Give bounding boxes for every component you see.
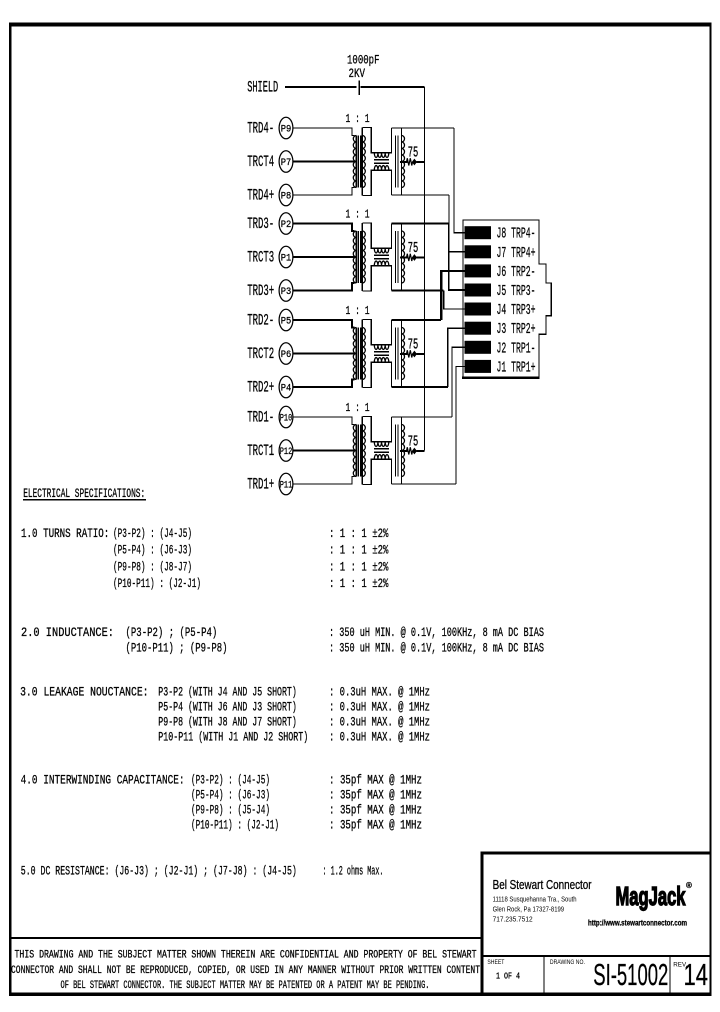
- svg-text:(P3-P2) : (J4-J5): (P3-P2) : (J4-J5): [191, 773, 270, 788]
- svg-text:THIS DRAWING AND THE SUBJECT M: THIS DRAWING AND THE SUBJECT MATTER SHOW…: [15, 950, 477, 962]
- title block outline: [482, 853, 711, 994]
- svg-text:J5 TRP3-: J5 TRP3-: [497, 283, 536, 300]
- transformer T2 core: [357, 328, 359, 380]
- choke L2 core: [374, 351, 389, 353]
- svg-text:SHIELD: SHIELD: [247, 79, 278, 97]
- choke L3 top winding: [374, 248, 389, 253]
- wire shield right segment to bus: [361, 86, 425, 88]
- wire T4 choke bottom link: [362, 170, 391, 195]
- svg-text:TRD1+: TRD1+: [247, 476, 274, 494]
- svg-text:TRD3-: TRD3-: [247, 215, 274, 233]
- svg-text:TRD4+: TRD4+: [247, 187, 274, 205]
- capacitor C1 plate: [358, 81, 360, 96]
- svg-text:1 OF 4: 1 OF 4: [496, 971, 520, 982]
- transformer T2 primary winding: [355, 328, 357, 380]
- svg-text:TRCT4: TRCT4: [247, 153, 274, 171]
- wire TRD4- to primary top: [293, 128, 355, 136]
- pin J6 contact pad: [465, 264, 492, 277]
- svg-text:ELECTRICAL SPECIFICATIONS:: ELECTRICAL SPECIFICATIONS:: [23, 486, 145, 501]
- svg-text:: 350 uH MIN. @ 0.1V, 100KHz,: : 350 uH MIN. @ 0.1V, 100KHz, 8 mA DC BI…: [329, 641, 544, 656]
- transformer T4 secondary winding: [401, 128, 403, 196]
- pin P8 circle: [279, 184, 293, 206]
- wire termination bus vertical: [423, 87, 425, 451]
- choke L3 core: [374, 254, 389, 256]
- svg-text:OF BEL STEWART CONNECTOR. THE: OF BEL STEWART CONNECTOR. THE SUBJECT MA…: [61, 980, 430, 992]
- pin J1 contact pad: [465, 360, 492, 373]
- wire TRD1+ to primary bottom: [293, 477, 355, 485]
- pin J2 contact pad: [465, 341, 492, 354]
- svg-text:P7: P7: [281, 157, 292, 169]
- wire TRP2 top to connector: [392, 319, 442, 321]
- svg-text:P3: P3: [281, 286, 292, 298]
- svg-text:P3-P2 (WITH J4 AND J5 SHORT): P3-P2 (WITH J4 AND J5 SHORT): [158, 685, 296, 700]
- transformer T1 secondary winding: [401, 417, 403, 485]
- wire resistor R2 to shield bus: [417, 353, 425, 355]
- transformer T3 primary winding: [355, 231, 357, 283]
- svg-text:717.235.7512: 717.235.7512: [493, 917, 533, 924]
- svg-text:(P9-P8) : (J8-J7): (P9-P8) : (J8-J7): [113, 559, 192, 574]
- choke L4 top winding: [374, 153, 389, 158]
- resistor R2 symbol: [400, 353, 408, 355]
- svg-text:P5-P4 (WITH J6 AND J3 SHORT): P5-P4 (WITH J6 AND J3 SHORT): [158, 700, 296, 715]
- svg-text:(P10-P11) ; (P9-P8): (P10-P11) ; (P9-P8): [126, 641, 228, 656]
- choke L1 top winding: [374, 442, 389, 447]
- svg-text:1 : 1: 1 : 1: [346, 112, 370, 126]
- pin P10 circle: [279, 406, 293, 428]
- choke L1 core: [374, 448, 389, 450]
- svg-text:Bel Stewart Connector: Bel Stewart Connector: [493, 878, 592, 892]
- svg-text:: 1 : 1 ±2%: : 1 : 1 ±2%: [329, 543, 389, 558]
- svg-text:5.0 DC RESISTANCE: (J6-J3) ; (: 5.0 DC RESISTANCE: (J6-J3) ; (J2-J1) ; (…: [21, 864, 297, 879]
- pin P3 circle: [279, 280, 293, 302]
- wire TRCT1 center tap (thick): [293, 449, 356, 451]
- transformer T1 isolation secondary winding: [361, 417, 363, 485]
- svg-text:CONNECTOR AND SHALL NOT BE REP: CONNECTOR AND SHALL NOT BE REPRODUCED, C…: [11, 965, 480, 977]
- wire TRCT3 center tap (thick): [293, 256, 356, 258]
- wire TRD4+ to primary bottom: [293, 188, 355, 196]
- svg-text:(P5-P4) : (J6-J3): (P5-P4) : (J6-J3): [191, 788, 270, 803]
- wire TRCT2 center tap (thick): [293, 352, 356, 354]
- svg-text:: 350 uH MIN. @ 0.1V, 100KHz,: : 350 uH MIN. @ 0.1V, 100KHz, 8 mA DC BI…: [329, 625, 544, 640]
- pin P7 circle: [279, 151, 293, 173]
- transformer T3 secondary winding: [401, 223, 403, 291]
- wire TRD1- to primary top: [293, 417, 355, 425]
- svg-text:75: 75: [408, 145, 419, 162]
- transformer T4 core: [357, 136, 359, 188]
- svg-text:(P3-P2) : (J4-J5): (P3-P2) : (J4-J5): [113, 526, 192, 541]
- svg-text:P9-P8 (WITH J8 AND J7 SHORT): P9-P8 (WITH J8 AND J7 SHORT): [158, 715, 296, 730]
- wire T3 choke bottom link: [362, 266, 391, 291]
- pin J4 contact pad: [465, 303, 492, 316]
- svg-text:DRAWING NO.: DRAWING NO.: [550, 959, 585, 966]
- wire T2 choke top link: [362, 320, 391, 345]
- resistor R4 symbol: [400, 161, 408, 163]
- pin P12 circle: [279, 440, 293, 462]
- svg-text:http://www.stewartconnector.co: http://www.stewartconnector.com: [588, 918, 687, 928]
- svg-text:: 35pf MAX @ 1MHz: : 35pf MAX @ 1MHz: [329, 818, 422, 833]
- svg-text:: 0.3uH MAX. @ 1MHz: : 0.3uH MAX. @ 1MHz: [329, 685, 430, 700]
- transformer T4 secondary core: [394, 136, 396, 188]
- wire TRD3+ to primary bottom: [293, 283, 355, 291]
- wire resistor R1 to shield bus: [417, 450, 425, 452]
- svg-text:: 35pf MAX @ 1MHz: : 35pf MAX @ 1MHz: [329, 803, 422, 818]
- wire T2 choke bottom link: [362, 362, 391, 387]
- transformer T3 core: [357, 231, 359, 283]
- svg-text:(P5-P4) : (J6-J3): (P5-P4) : (J6-J3): [113, 543, 192, 558]
- svg-text:P1: P1: [281, 253, 292, 265]
- choke L4 bottom winding: [374, 166, 389, 171]
- svg-text:TRD3+: TRD3+: [247, 282, 274, 300]
- svg-text:®: ®: [686, 881, 692, 890]
- svg-text:: 1 : 1 ±2%: : 1 : 1 ±2%: [329, 559, 389, 574]
- svg-text:: 0.3uH MAX. @ 1MHz: : 0.3uH MAX. @ 1MHz: [329, 730, 430, 745]
- transformer T3 isolation secondary winding: [361, 223, 363, 291]
- pin J3 contact pad: [465, 322, 492, 335]
- resistor R3 symbol: [400, 256, 408, 258]
- wire TRD2- to primary top: [293, 320, 355, 328]
- svg-text:1 : 1: 1 : 1: [346, 304, 370, 318]
- transformer T4 primary winding: [355, 136, 357, 188]
- svg-text:75: 75: [408, 434, 419, 451]
- svg-text:J1 TRP1+: J1 TRP1+: [497, 359, 536, 376]
- svg-text:P8: P8: [281, 191, 292, 203]
- choke L2 bottom winding: [374, 358, 389, 363]
- svg-text:SHEET: SHEET: [487, 959, 504, 966]
- svg-text:TRD2-: TRD2-: [247, 312, 274, 330]
- wire TRD2+ to primary bottom: [293, 380, 355, 388]
- choke L1 bottom winding: [374, 455, 389, 460]
- svg-text:J4 TRP3+: J4 TRP3+: [497, 302, 536, 319]
- wire resistor R3 to shield bus: [417, 256, 425, 258]
- pin P4 circle: [279, 376, 293, 398]
- svg-text:75: 75: [408, 337, 419, 354]
- svg-text:(P10-P11) : (J2-J1): (P10-P11) : (J2-J1): [191, 818, 279, 833]
- svg-text:: 1.2 ohms Max.: : 1.2 ohms Max.: [323, 864, 384, 879]
- svg-text:J8 TRP4-: J8 TRP4-: [497, 226, 536, 243]
- wire TRP1 bottom to connector: [392, 483, 457, 485]
- wire TRCT4 center tap (thick): [293, 160, 356, 162]
- svg-text:: 35pf MAX @ 1MHz: : 35pf MAX @ 1MHz: [329, 788, 422, 803]
- svg-text:P12: P12: [280, 446, 293, 458]
- svg-text:(P3-P2) ; (P5-P4): (P3-P2) ; (P5-P4): [126, 625, 218, 640]
- pin P6 circle: [279, 343, 293, 365]
- svg-text:2KV: 2KV: [349, 66, 366, 81]
- pin J8 contact pad: [465, 226, 492, 239]
- transformer T2 secondary core: [394, 328, 396, 380]
- transformer T3 secondary core: [394, 231, 396, 283]
- svg-text:J6 TRP2-: J6 TRP2-: [497, 264, 536, 281]
- pin J7 contact pad: [465, 245, 492, 258]
- wire T1 choke bottom link: [362, 459, 391, 484]
- svg-text:: 1 : 1 ±2%: : 1 : 1 ±2%: [329, 526, 389, 541]
- transformer T2 isolation secondary winding: [361, 320, 363, 388]
- transformer T2 secondary winding: [401, 320, 403, 388]
- pin J5 contact pad: [465, 284, 492, 297]
- pin P5 circle: [279, 309, 293, 331]
- svg-text:MagJack: MagJack: [616, 881, 686, 911]
- pin P1 circle: [279, 246, 293, 268]
- svg-text:1 : 1: 1 : 1: [346, 208, 370, 222]
- wire TRD3- to primary top: [293, 224, 355, 232]
- choke L2 top winding: [374, 345, 389, 350]
- svg-text:: 1 : 1 ±2%: : 1 : 1 ±2%: [329, 576, 389, 591]
- transformer T1 core: [357, 425, 359, 477]
- svg-text:TRD2+: TRD2+: [247, 379, 274, 397]
- svg-text:(P10-P11) : (J2-J1): (P10-P11) : (J2-J1): [113, 576, 201, 591]
- wire T3 choke top link: [362, 223, 391, 248]
- wire TRP3 top to connector: [392, 222, 449, 224]
- svg-text:: 0.3uH MAX. @ 1MHz: : 0.3uH MAX. @ 1MHz: [329, 700, 430, 715]
- svg-text:J3 TRP2+: J3 TRP2+: [497, 321, 536, 338]
- svg-text:P9: P9: [281, 124, 292, 136]
- svg-text:TRCT2: TRCT2: [247, 345, 274, 363]
- svg-text:P10: P10: [280, 413, 293, 425]
- disclaimer box: [9, 937, 482, 939]
- svg-text:3.0 LEAKAGE NOUCTANCE:: 3.0 LEAKAGE NOUCTANCE:: [20, 685, 148, 700]
- svg-text:P2: P2: [281, 219, 292, 231]
- wire T1 choke top link: [362, 417, 391, 442]
- wire TRP1 top to connector: [392, 416, 452, 418]
- svg-text:11118 Susquehanna Tra., South: 11118 Susquehanna Tra., South: [493, 897, 577, 904]
- pin P9 circle: [279, 117, 293, 139]
- svg-text:P10-P11 (WITH J1 AND J2 SHORT): P10-P11 (WITH J1 AND J2 SHORT): [158, 730, 308, 745]
- svg-text:TRD4-: TRD4-: [247, 120, 274, 138]
- choke L3 bottom winding: [374, 261, 389, 266]
- svg-text:: 35pf MAX @ 1MHz: : 35pf MAX @ 1MHz: [329, 773, 422, 788]
- svg-text:TRCT1: TRCT1: [247, 442, 274, 460]
- svg-text:P6: P6: [281, 349, 292, 361]
- svg-text:1.0 TURNS RATIO:: 1.0 TURNS RATIO:: [21, 526, 109, 541]
- svg-text:4.0 INTERWINDING CAPACITANCE:: 4.0 INTERWINDING CAPACITANCE:: [21, 773, 185, 788]
- choke L4 core: [374, 159, 389, 161]
- transformer T1 secondary core: [394, 425, 396, 477]
- svg-text:J2 TRP1-: J2 TRP1-: [497, 340, 536, 357]
- svg-text:TRCT3: TRCT3: [247, 249, 274, 267]
- pin P2 circle: [279, 213, 293, 235]
- svg-text:(P9-P8) : (J5-J4): (P9-P8) : (J5-J4): [191, 803, 270, 818]
- connector J1 RJ45 jack outline: [463, 220, 551, 378]
- svg-text:P5: P5: [281, 316, 292, 328]
- svg-text:1 : 1: 1 : 1: [346, 401, 370, 415]
- svg-text:SI-51002: SI-51002: [593, 958, 668, 992]
- wire shield left segment: [285, 86, 357, 88]
- wire TRP4 bottom to connector: [392, 194, 450, 196]
- svg-text:2.0 INDUCTANCE:: 2.0 INDUCTANCE:: [21, 625, 114, 640]
- resistor R1 symbol: [400, 450, 408, 452]
- svg-text:: 0.3uH MAX. @ 1MHz: : 0.3uH MAX. @ 1MHz: [329, 715, 430, 730]
- svg-text:P11: P11: [280, 480, 293, 492]
- svg-text:14: 14: [684, 958, 709, 992]
- svg-text:75: 75: [408, 240, 419, 257]
- wire T4 choke top link: [362, 128, 391, 153]
- svg-text:P4: P4: [281, 383, 292, 395]
- transformer T1 primary winding: [355, 425, 357, 477]
- svg-text:TRD1-: TRD1-: [247, 409, 274, 427]
- wire TRP2 bottom to connector: [392, 386, 448, 388]
- transformer T4 isolation secondary winding: [361, 128, 363, 196]
- wire TRP3 bottom to connector: [392, 289, 444, 291]
- svg-text:J7 TRP4+: J7 TRP4+: [497, 245, 536, 262]
- wire resistor R4 to shield bus: [417, 161, 425, 163]
- pin P11 circle: [279, 473, 293, 495]
- wire TRP4 top to connector: [392, 127, 455, 129]
- svg-text:Glen Rock, Pa 17327-8199: Glen Rock, Pa 17327-8199: [493, 907, 565, 914]
